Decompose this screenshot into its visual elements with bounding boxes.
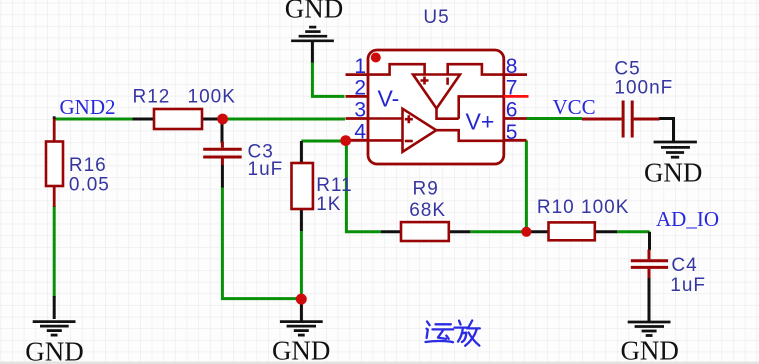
svg-text:1K: 1K bbox=[316, 194, 341, 215]
svg-text:3: 3 bbox=[354, 99, 366, 122]
svg-text:100nF: 100nF bbox=[614, 78, 673, 99]
svg-text:R9: R9 bbox=[413, 179, 439, 200]
svg-text:0.05: 0.05 bbox=[69, 174, 110, 195]
svg-text:1uF: 1uF bbox=[670, 275, 706, 296]
svg-text:GND: GND bbox=[620, 336, 679, 364]
svg-text:R12: R12 bbox=[133, 87, 171, 108]
svg-text:7: 7 bbox=[506, 77, 518, 100]
svg-text:R11: R11 bbox=[316, 175, 352, 196]
svg-text:8: 8 bbox=[506, 55, 518, 78]
svg-text:GND: GND bbox=[285, 0, 344, 24]
svg-text:68K: 68K bbox=[409, 200, 446, 221]
svg-text:VCC: VCC bbox=[553, 95, 596, 119]
svg-text:R16: R16 bbox=[69, 155, 107, 176]
svg-text:1: 1 bbox=[354, 55, 366, 78]
svg-text:V+: V+ bbox=[466, 108, 495, 134]
svg-text:GND2: GND2 bbox=[60, 95, 116, 119]
svg-text:100K: 100K bbox=[188, 87, 236, 108]
svg-text:AD_IO: AD_IO bbox=[656, 207, 719, 231]
svg-text:2: 2 bbox=[354, 77, 366, 100]
svg-text:C4: C4 bbox=[671, 255, 697, 276]
svg-text:GND: GND bbox=[272, 336, 331, 364]
svg-text:4: 4 bbox=[354, 121, 366, 144]
svg-text:U5: U5 bbox=[423, 7, 449, 28]
svg-text:GND: GND bbox=[25, 337, 84, 364]
svg-text:1uF: 1uF bbox=[248, 159, 284, 180]
svg-text:R10 100K: R10 100K bbox=[537, 197, 630, 218]
svg-text:5: 5 bbox=[506, 121, 518, 144]
svg-text:GND: GND bbox=[644, 158, 703, 188]
svg-text:V-: V- bbox=[378, 86, 400, 112]
svg-text:C5: C5 bbox=[614, 59, 640, 80]
svg-text:6: 6 bbox=[506, 99, 518, 122]
